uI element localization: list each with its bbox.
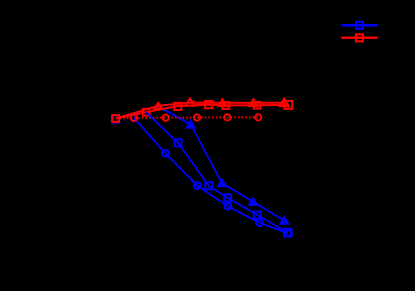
red dotted circle series line — [116, 117, 261, 118]
red triangle marker 4 (filled blob) — [249, 98, 259, 107]
legend red square — [356, 34, 363, 41]
blue circle marker 6 — [285, 230, 292, 237]
red circle marker 5 — [255, 114, 261, 120]
legend blue square — [356, 22, 363, 29]
blue square marker 5 — [224, 194, 231, 201]
red square series line — [116, 105, 289, 119]
blue square marker 6 — [254, 212, 261, 219]
blue circle series line — [134, 118, 288, 233]
red square marker 1 repaint — [112, 115, 119, 122]
red square marker 4 — [205, 101, 212, 108]
blue triangle marker 3 — [217, 178, 227, 186]
blue square marker 4 — [205, 182, 212, 189]
red triangle marker 2 — [186, 98, 195, 105]
legend red line — [341, 37, 377, 40]
red square marker 5 (merged blob) — [222, 102, 229, 109]
red square marker 7 (large end square) — [285, 101, 293, 109]
blue circle marker 4 — [225, 203, 232, 210]
red square marker 3 — [174, 103, 181, 110]
blue square series line — [146, 112, 288, 232]
legend blue line — [341, 24, 377, 27]
blue triangle marker 2 — [186, 120, 196, 129]
red circle marker 3 — [194, 114, 200, 120]
red square marker 2 — [143, 109, 150, 116]
blue triangle marker 5 — [279, 216, 289, 225]
blue square marker 3 — [175, 139, 182, 146]
blue circle marker 3 — [194, 182, 201, 189]
blue triangle marker 4 — [248, 197, 258, 206]
blue square marker 7 — [284, 229, 292, 237]
red triangle series line — [116, 103, 284, 119]
blue square marker 1 (peeks from under red) — [112, 116, 119, 123]
blue triangle series line — [158, 106, 284, 220]
red square marker 1 — [112, 115, 119, 122]
red triangle marker 3 (filled blob) — [218, 98, 228, 107]
red circle marker 2 — [163, 115, 169, 121]
red circle marker 1 — [131, 115, 137, 121]
blue circle marker 2 — [162, 150, 169, 157]
red triangle marker 5 — [280, 99, 289, 106]
red triangle marker 1 — [154, 103, 162, 108]
blue circle marker 1 — [131, 115, 138, 122]
red circle marker 4 — [224, 114, 230, 120]
blue circle marker 5 — [256, 219, 263, 226]
red square marker 6 (merged blob) — [254, 102, 261, 109]
